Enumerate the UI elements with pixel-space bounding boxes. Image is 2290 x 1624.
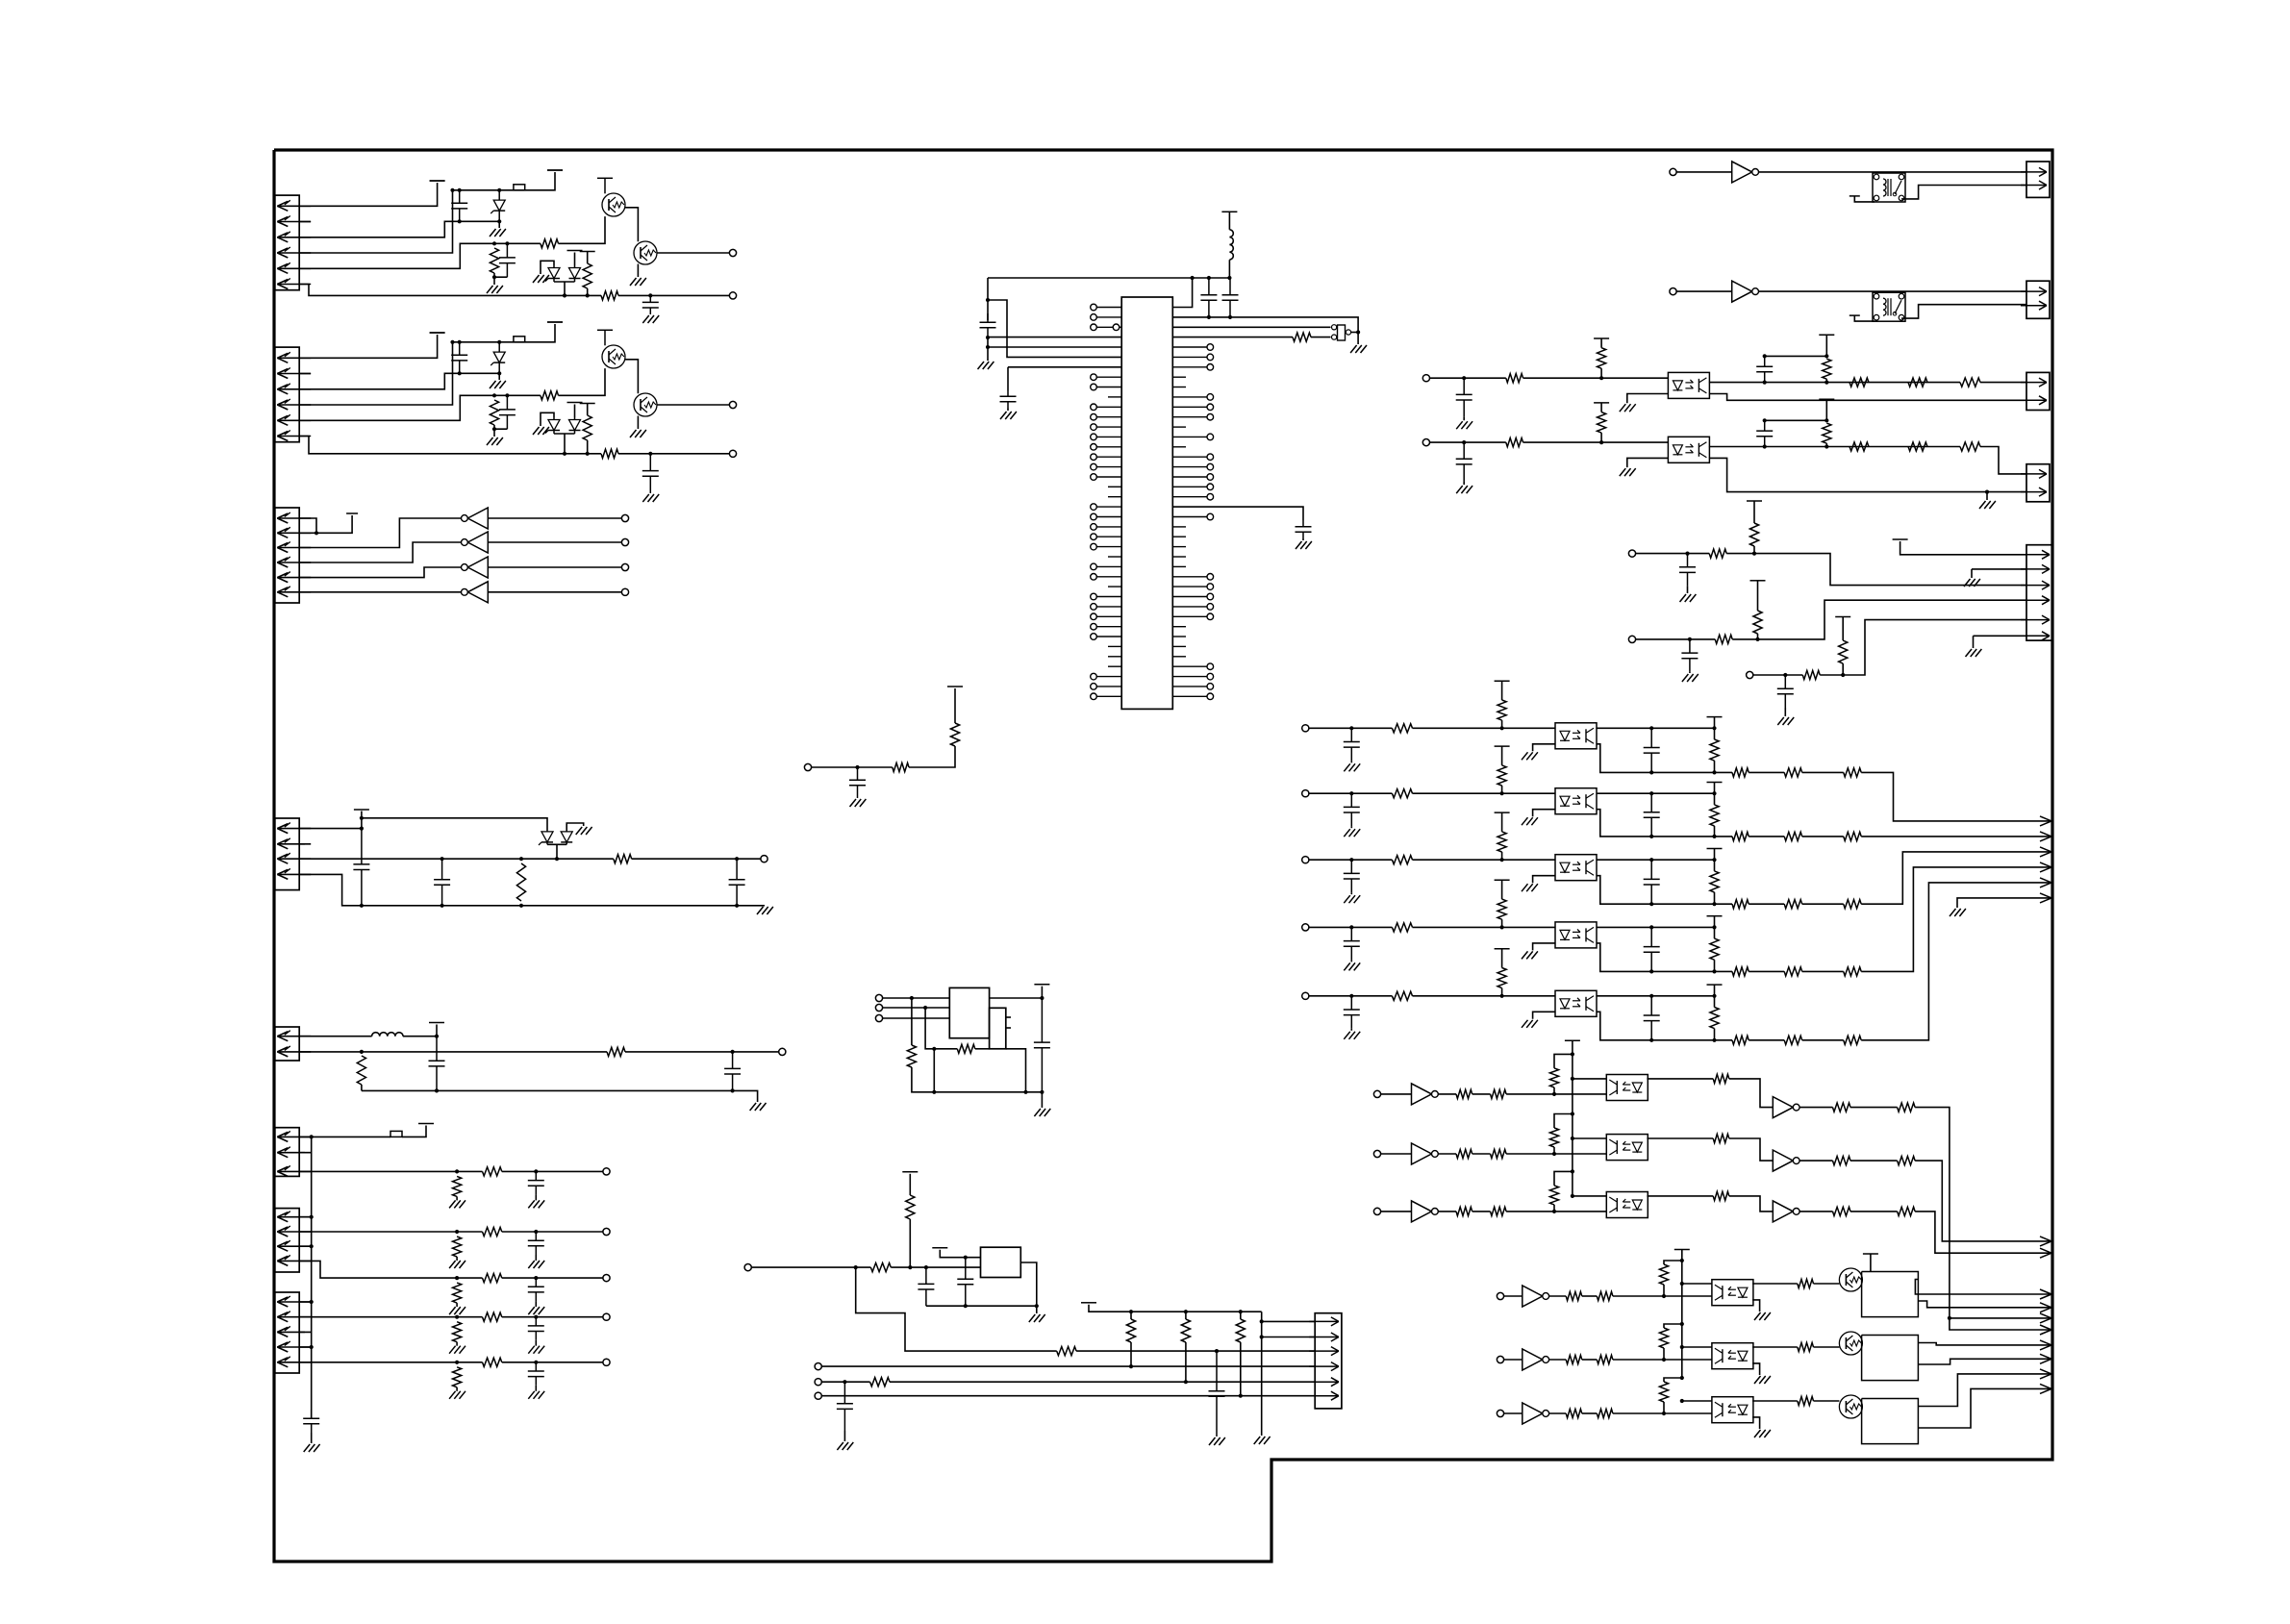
- terminal TR1 in: [1670, 168, 1676, 175]
- wire RC pub: [1842, 663, 1844, 675]
- node O2 n4: [1824, 444, 1828, 448]
- node B2 n2: [458, 340, 462, 344]
- wire OC2 rv b: [1714, 826, 1716, 837]
- node VR n5: [964, 1304, 968, 1308]
- wire J8 pin3 stub: [299, 1331, 305, 1333]
- resistor O2 R3: [1908, 442, 1927, 451]
- resistor O2 R1: [1506, 438, 1523, 447]
- terminal TG2 in: [1497, 1356, 1503, 1362]
- wire OC5 b: [1413, 995, 1556, 997]
- wire VR b: [891, 1266, 980, 1268]
- wire IG2 f: [1850, 1160, 1898, 1162]
- node VR n3: [924, 1265, 928, 1269]
- wire J4 rail: [362, 818, 547, 831]
- U1 right pin 9 stub: [1172, 387, 1186, 388]
- wire row3 out: [502, 1277, 603, 1279]
- power bar2 B2: [547, 321, 563, 323]
- wire J9 pin1w: [1262, 1320, 1316, 1322]
- node VR n1: [854, 1265, 858, 1269]
- wire row2 rv tail: [456, 1257, 458, 1261]
- wire OC5 bot1: [1597, 1012, 1732, 1040]
- ground RA G1: [1680, 594, 1687, 602]
- buffer IG3 U: [1412, 1201, 1432, 1222]
- resistor TG3 R2: [1597, 1409, 1613, 1417]
- U1 jumper: [1338, 325, 1346, 340]
- ground TG3 G1: [1754, 1430, 1761, 1437]
- ground U1 G2b: [1000, 412, 1007, 419]
- resistor O1 RP2: [1823, 359, 1831, 379]
- node U1 rn3: [1227, 276, 1231, 280]
- resistor O1 R2: [1850, 378, 1869, 387]
- wire OC1 rv t: [1714, 717, 1716, 729]
- resistor U3 R2: [957, 1044, 975, 1053]
- wire B1 q2 gnd: [637, 264, 639, 278]
- U1 left pin 12 pad: [1091, 413, 1097, 420]
- wire rowB5a: [821, 1381, 869, 1383]
- wire OC5 bw1: [1749, 1039, 1784, 1041]
- wire J5 pin1a: [299, 1036, 372, 1037]
- wire U1 rail2: [1172, 317, 1358, 344]
- U1 right pin 37 pad: [1207, 663, 1214, 670]
- wire U3 w3: [883, 1017, 950, 1019]
- terminal TG3 in: [1497, 1410, 1503, 1416]
- U1 right pin 17: [1172, 466, 1206, 468]
- wire OC3 bw2: [1802, 903, 1844, 905]
- node B2 n6: [492, 393, 496, 397]
- power bar J3: [346, 512, 358, 514]
- resistor OC5 RP2: [1710, 1008, 1719, 1029]
- wire O1 pu b: [1600, 368, 1602, 378]
- wire OC2 bot1: [1597, 810, 1732, 837]
- wire O2 ct: [1463, 481, 1465, 485]
- capacitor OC4 C1: [1350, 927, 1352, 940]
- capacitor OC1 C2: [1650, 728, 1652, 747]
- ground OCG G: [1950, 909, 1956, 916]
- node O2 n1: [1462, 440, 1466, 444]
- node O2 n6: [1824, 418, 1828, 422]
- zener B2 D2: [553, 417, 555, 420]
- U1 left pin 1 pad: [1091, 304, 1097, 311]
- wire TG3 pu: [1663, 1402, 1665, 1413]
- terminal RC in: [1747, 671, 1753, 678]
- node B1 n10: [586, 293, 590, 297]
- wire J3 inv3 in: [488, 566, 621, 568]
- wire U1 c2 t: [1007, 408, 1009, 411]
- wire U3 v1: [911, 998, 913, 1045]
- power bar OC3: [1495, 812, 1510, 813]
- ground RC G1: [1777, 717, 1784, 725]
- U1 right pin 11 pad: [1207, 404, 1214, 411]
- wire OC3 rv m: [1714, 860, 1716, 871]
- terminal IG2 in: [1373, 1150, 1380, 1157]
- ground rowB5 G: [837, 1442, 843, 1450]
- resistor IG3 R1: [1456, 1207, 1472, 1215]
- terminal IG3 in: [1373, 1208, 1380, 1214]
- resistor IG1 R4: [1833, 1103, 1851, 1112]
- wire B2 join drop: [564, 434, 566, 454]
- node IG2 n1: [1552, 1152, 1556, 1156]
- node OC5 n3: [1649, 994, 1653, 998]
- connector P3: [2026, 372, 2050, 410]
- capacitor row2 Cv: [535, 1232, 537, 1240]
- U1 left pin 21: [1096, 506, 1121, 508]
- terminal J3 in2: [621, 538, 628, 545]
- ground J9 G2: [1254, 1437, 1261, 1444]
- wire B1 d3 sup: [574, 253, 576, 266]
- node J5 n1: [435, 1035, 439, 1038]
- U1 left pin 19 stub: [1108, 486, 1121, 487]
- U1 right pin 16 pad: [1207, 454, 1214, 461]
- capacitor J4 C3: [736, 859, 738, 880]
- resistor TG1 R2: [1597, 1291, 1613, 1300]
- wire IG2 to: [1647, 1137, 1713, 1139]
- bus arrow TG2 oute: [2040, 1354, 2051, 1359]
- node OC3 n2: [1500, 858, 1504, 862]
- U1 jp pad2: [1332, 335, 1337, 339]
- wire OC5 pub: [1501, 988, 1503, 996]
- node U1 rn4: [1207, 315, 1211, 319]
- node J4 n6: [735, 857, 739, 861]
- U1 left pin 32: [1096, 615, 1121, 617]
- node O1 n4: [1824, 381, 1828, 385]
- node IG1 n1: [1552, 1092, 1556, 1096]
- wire P5 pin1: [1900, 541, 2026, 555]
- node net1 n1: [855, 765, 859, 769]
- node OC1 n3: [1649, 726, 1653, 730]
- resistor OC1 R2: [1732, 768, 1749, 777]
- wire J3 inv4 in: [488, 591, 621, 593]
- resistor IG2 R2: [1491, 1149, 1507, 1158]
- power bar4 B2: [580, 403, 595, 405]
- node RA n1: [1685, 552, 1689, 556]
- ground J9 G1: [1209, 1437, 1216, 1445]
- U1 right pin 17 pad: [1207, 463, 1214, 470]
- wire OC2 ct: [1350, 826, 1352, 828]
- node O1 n1: [1462, 376, 1466, 380]
- wire B2 zener join: [554, 433, 575, 435]
- U1 right pin 38 pad: [1207, 673, 1214, 680]
- U1 left pin 18 pad: [1091, 474, 1097, 481]
- node J4 n1: [360, 816, 364, 820]
- wire TG rail: [1681, 1250, 1683, 1379]
- ground row1 G1: [449, 1200, 456, 1208]
- node U1 ln2: [986, 336, 990, 339]
- wire IG2 puh: [1554, 1114, 1573, 1129]
- wire OC5 rv b: [1714, 1029, 1716, 1040]
- wire row5 out: [502, 1362, 603, 1363]
- wire OC1 top: [1597, 727, 1714, 729]
- wire VR gtail: [1036, 1306, 1038, 1313]
- node U3 n4: [1023, 1090, 1027, 1094]
- node row4 n2: [534, 1315, 538, 1319]
- wire OC4 lg: [1533, 943, 1555, 951]
- bus arrow OC3 out: [2040, 847, 2051, 852]
- wire IG3 f: [1850, 1211, 1898, 1212]
- node IG1 n2: [1571, 1052, 1574, 1056]
- U1 right pin 23 stub: [1172, 526, 1186, 528]
- wire row4 in: [299, 1316, 457, 1318]
- node OC5 n6: [1712, 1038, 1716, 1042]
- connector J8: [275, 1292, 299, 1373]
- U1 right pin 33 stub: [1172, 626, 1186, 628]
- terminal U3 t1: [875, 994, 882, 1001]
- wire U1 left stack: [987, 278, 989, 320]
- resistor TG1 R1: [1566, 1291, 1582, 1300]
- wire row4 cv tail: [535, 1340, 537, 1346]
- node J9 rn5: [1184, 1380, 1188, 1384]
- node U3 n2: [923, 1006, 927, 1010]
- U1 right pin 6 pad: [1207, 354, 1214, 361]
- transistor B1 Q2: [634, 241, 657, 264]
- ground bus G1: [304, 1444, 311, 1452]
- wire U1 jp out: [1351, 332, 1359, 334]
- resistor IG2 R1: [1456, 1149, 1472, 1158]
- ground net1 G1: [850, 799, 857, 807]
- wire VR out: [1020, 1262, 1037, 1306]
- wire IG1 d: [1506, 1093, 1606, 1095]
- wire OC4 ct: [1350, 960, 1352, 962]
- node TGx1 n: [1948, 1316, 1951, 1320]
- wire J9 R1 b: [1130, 1342, 1132, 1366]
- wire B2 g2 stub: [493, 429, 495, 437]
- node B2 n5: [497, 371, 501, 375]
- capacitor O2 C2: [1764, 420, 1766, 431]
- optocoupler IG3 PC: [1606, 1192, 1648, 1218]
- power B1 V1: [430, 180, 445, 182]
- U1 left pin 1: [1096, 307, 1121, 309]
- wire IG3 tl: [1573, 1195, 1606, 1197]
- power bar O1: [1594, 337, 1609, 339]
- node J5 n5: [731, 1088, 735, 1092]
- resistor row5 Rh: [483, 1358, 502, 1366]
- wire B2 long out2: [618, 453, 729, 455]
- resistor B2 R3: [583, 415, 591, 440]
- wire O2 b: [1523, 441, 1669, 443]
- wire OC4 top: [1597, 926, 1714, 928]
- U1 right pin 30: [1172, 596, 1206, 598]
- resistor J9 R3: [1236, 1319, 1245, 1342]
- wire VR sup2: [940, 1250, 980, 1258]
- ic U3b: [990, 1008, 1006, 1049]
- node VR n2: [908, 1265, 912, 1269]
- U1 right pin 7: [1172, 366, 1206, 368]
- U1 right pin 18: [1172, 476, 1206, 478]
- U1 left pin 21 pad: [1091, 504, 1097, 511]
- wire TG3 to: [1752, 1400, 1798, 1402]
- node OC3 n1: [1349, 858, 1353, 862]
- connector P1: [2026, 162, 2050, 197]
- ground O2 G1: [1456, 486, 1463, 493]
- capacitor OC2 C2: [1650, 793, 1652, 812]
- resistor TG3 RP: [1659, 1382, 1668, 1402]
- transistor B1 Q1: [602, 193, 625, 216]
- U1 left pin 8: [1096, 376, 1121, 378]
- node U1 rn2: [1207, 276, 1211, 280]
- wire TG2 bg: [1752, 1363, 1760, 1375]
- wire OC5 top: [1597, 995, 1714, 997]
- node RC n1: [1783, 673, 1787, 677]
- resistor OC2 R3: [1784, 832, 1802, 840]
- wire IG2 tl: [1573, 1137, 1606, 1139]
- wire B1 d1 gnd stub: [498, 221, 500, 228]
- ground TG2 G1: [1754, 1376, 1761, 1384]
- U1 left pin 11: [1096, 406, 1121, 408]
- node J4 n8: [440, 904, 444, 908]
- ground B1 G3: [630, 278, 637, 286]
- node IG2 n3: [1571, 1137, 1574, 1140]
- wire IG2 d: [1506, 1153, 1606, 1155]
- wire J5 sup: [436, 1025, 438, 1037]
- capacitor O1 C2: [1764, 356, 1766, 366]
- node O2 n3: [1763, 444, 1767, 448]
- power bar U3: [1034, 984, 1049, 986]
- transformer TR2 T: [1873, 292, 1905, 321]
- wire U3 w1: [883, 997, 950, 999]
- wire B2 q1-q2: [625, 360, 638, 394]
- resistor OC2 R1: [1392, 789, 1412, 798]
- wire bus tail: [311, 1433, 313, 1443]
- U1 right pin 5 pad: [1207, 344, 1214, 351]
- U1 left pin 16 pad: [1091, 454, 1097, 461]
- capacitor RC C1: [1784, 675, 1786, 688]
- node U3 n1: [910, 996, 914, 1000]
- wire TR2 blk: [1854, 315, 1875, 321]
- node U3 n5: [1040, 1090, 1044, 1094]
- wire B2 pin1 to supply: [299, 335, 438, 358]
- connector J2: [275, 347, 299, 442]
- power bar O2b: [1819, 398, 1834, 400]
- bus arrow IG2 out: [2040, 1237, 2051, 1241]
- U1 left pin3 inner pad: [1113, 324, 1120, 331]
- power B2 V2: [547, 321, 563, 323]
- ground row4 G1: [449, 1346, 456, 1354]
- terminal J3 in4: [621, 588, 628, 595]
- capacitor U1 C3: [1208, 278, 1210, 295]
- terminal J3 in1: [621, 514, 628, 521]
- wire TG3 c: [1582, 1412, 1598, 1414]
- power bar OC4: [1495, 879, 1510, 881]
- U1 right pin 19: [1172, 486, 1206, 487]
- wire J3 inv3 out: [299, 567, 462, 578]
- wire OC1 lg: [1533, 744, 1555, 752]
- fuse B1 F1: [514, 185, 525, 190]
- node B1 n5: [497, 219, 501, 223]
- U1 left pin 34 pad: [1091, 634, 1097, 640]
- resistor O1 R4: [1960, 378, 1980, 387]
- resistor TG2 R2: [1597, 1355, 1613, 1363]
- wire row4 mid: [457, 1316, 482, 1318]
- wire IG1 to: [1647, 1078, 1713, 1080]
- resistor IG3 R4: [1833, 1207, 1851, 1215]
- node O1 n2: [1599, 376, 1603, 380]
- resistor OC5 R1: [1392, 991, 1412, 1000]
- wire B1 r1 tail: [494, 273, 507, 277]
- resistor B1 R3: [583, 263, 591, 288]
- wire OC5 lg: [1533, 1012, 1555, 1019]
- node B2 n10: [586, 452, 590, 456]
- bus arrow OCG out: [2040, 893, 2051, 898]
- U1 left pin 38 pad: [1091, 673, 1097, 680]
- wire U1 row4 w: [1172, 337, 1293, 338]
- wire B1 q1-q2: [625, 208, 638, 242]
- node OC1 n2: [1500, 726, 1504, 730]
- wire B1 pin4 step: [299, 190, 453, 253]
- ground O1 G1: [1456, 421, 1463, 429]
- wire J4 zjoin: [547, 843, 566, 845]
- wire OC2 a: [1309, 792, 1393, 794]
- power bar U1: [1221, 211, 1237, 212]
- node OC1 n4: [1712, 726, 1716, 730]
- node row1 n2: [534, 1169, 538, 1173]
- ground OC4 G1: [1344, 962, 1350, 970]
- node OC4 n4: [1712, 925, 1716, 929]
- capacitor J5 C2: [732, 1052, 734, 1069]
- wire loop TG3: [1862, 1399, 1919, 1444]
- node J5 n2: [360, 1050, 364, 1054]
- node OC5 n5: [1649, 1038, 1653, 1042]
- wire TG2 qc: [1918, 1343, 2051, 1345]
- wire OC5 ct: [1350, 1029, 1352, 1031]
- ground B2 G5: [642, 494, 649, 502]
- wire OC5 rv m: [1714, 996, 1716, 1008]
- zener J4 D1: [546, 831, 548, 832]
- ground O2 G3: [1979, 501, 1986, 509]
- ground J5 G1: [750, 1103, 757, 1111]
- resistor B2 R1: [490, 400, 498, 425]
- resistor TG3 R3: [1798, 1396, 1814, 1405]
- zener B2 D1: [498, 342, 500, 352]
- wire IG3 puh: [1554, 1171, 1573, 1186]
- wire O1 b: [1523, 377, 1669, 379]
- node B2 n8: [492, 427, 496, 431]
- wire B1 base: [559, 216, 606, 243]
- wire IG1 tl: [1573, 1078, 1606, 1080]
- node OC2 n4: [1712, 791, 1716, 795]
- U1 right pin 26 stub: [1172, 556, 1186, 558]
- wire O1 rs2: [1825, 379, 1827, 382]
- terminal O2 in: [1422, 439, 1429, 446]
- resistor B1 R1: [490, 248, 498, 273]
- power bar RB: [1750, 580, 1766, 582]
- U1 left pin 28 pad: [1091, 574, 1097, 581]
- resistor IG1 R2: [1491, 1089, 1507, 1098]
- ground U3 G1: [1034, 1109, 1041, 1116]
- capacitor B2 C3: [649, 454, 651, 471]
- resistor U1 R5: [1293, 333, 1311, 341]
- bus arrow TG1 oute: [2040, 1303, 2051, 1308]
- ground row4 G2: [528, 1346, 535, 1354]
- wire VR pull: [909, 1174, 911, 1195]
- wire TR1 blk: [1854, 196, 1875, 202]
- U1 left pin 27: [1096, 565, 1121, 567]
- U1 left pin 24: [1096, 536, 1121, 537]
- wire RB put: [1757, 581, 1759, 611]
- node OC4 n2: [1500, 925, 1504, 929]
- resistor O2 R2: [1850, 442, 1869, 451]
- power bar TGq: [1863, 1253, 1878, 1255]
- ground B1 G2: [487, 286, 493, 293]
- wire TG1 pu: [1663, 1285, 1665, 1296]
- resistor VR R1: [870, 1263, 891, 1272]
- buffer IG1 U: [1412, 1084, 1432, 1105]
- capacitor B1 C1: [459, 190, 461, 203]
- wire U1 bus row6: [988, 300, 1121, 357]
- terminal IG1 in: [1373, 1090, 1380, 1097]
- wire OC5 a: [1309, 995, 1393, 997]
- node B2 n11: [648, 452, 652, 456]
- wire B1 long out: [299, 285, 601, 296]
- wire OC5 bw2: [1802, 1039, 1844, 1041]
